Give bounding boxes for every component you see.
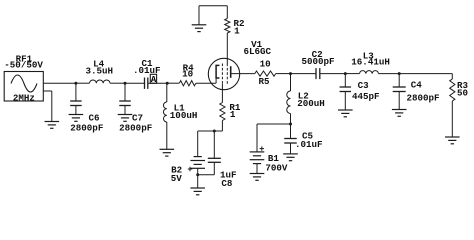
wire tube cathode down to R1 bbox=[221, 84, 223, 103]
ground below L1 bbox=[160, 149, 175, 156]
svg-text:6L6GC: 6L6GC bbox=[244, 46, 272, 57]
wire top rail to R2 bbox=[226, 6, 228, 19]
ground below C3 bbox=[338, 110, 353, 117]
C1 marker box bbox=[150, 74, 156, 83]
capacitor C3 bottom lead bbox=[344, 92, 346, 111]
tube V1 grid 1 dashed bbox=[221, 64, 223, 85]
capacitor C5 bottom lead bbox=[290, 143, 292, 154]
RF source RF1 box bbox=[4, 72, 43, 102]
wire node B to C1 bbox=[125, 82, 145, 84]
wire node H to R3 corner bbox=[399, 73, 452, 75]
ground below C4 bbox=[392, 110, 407, 117]
ground below B2 bbox=[190, 188, 205, 195]
wire R1 bottom bbox=[221, 121, 223, 132]
ground below RF1 bbox=[45, 122, 60, 129]
capacitor C3 top lead bbox=[344, 74, 346, 87]
wire L4 to node B bbox=[110, 82, 125, 84]
capacitor C5 top lead bbox=[290, 124, 292, 139]
wire R2 to tube screen grid bbox=[226, 33, 228, 64]
capacitor C2 bbox=[316, 68, 320, 79]
svg-text:10: 10 bbox=[260, 58, 271, 69]
wire node C to R4 bbox=[167, 82, 179, 84]
capacitor C4 bottom lead bbox=[398, 92, 400, 110]
tube V1 plate bar bbox=[230, 66, 232, 78]
node at C8 top tap bbox=[213, 130, 216, 133]
wire top rail bbox=[199, 5, 227, 7]
wire R3 top lead bbox=[451, 74, 453, 79]
svg-text:1: 1 bbox=[234, 26, 240, 37]
capacitor C3 bbox=[340, 87, 352, 92]
svg-text:.01uF: .01uF bbox=[133, 65, 161, 76]
tube V1 grid 2 dashed bbox=[226, 64, 228, 85]
svg-text:C4: C4 bbox=[411, 80, 423, 91]
wire R5 to node D bbox=[276, 73, 291, 75]
wire RF1 minus pin bbox=[43, 90, 52, 92]
ground below C6 bbox=[69, 115, 84, 122]
capacitor C7 bbox=[119, 101, 131, 106]
svg-text:-50/50V: -50/50V bbox=[4, 60, 43, 71]
svg-text:5V: 5V bbox=[171, 173, 183, 184]
svg-text:3.5uH: 3.5uH bbox=[86, 66, 114, 77]
node B junction bbox=[124, 82, 127, 85]
capacitor C8 bbox=[208, 158, 221, 162]
capacitor C6 bbox=[70, 101, 82, 106]
svg-text:R5: R5 bbox=[258, 76, 270, 87]
wire B1 top lead bbox=[256, 124, 258, 152]
node F junction bbox=[289, 123, 292, 126]
wire C1 to node C bbox=[148, 82, 167, 84]
capacitor C4 top lead bbox=[398, 74, 400, 87]
capacitor C6 bottom lead bbox=[75, 106, 77, 115]
wire B1 bottom lead bbox=[256, 164, 258, 174]
svg-text:5000pF: 5000pF bbox=[301, 56, 334, 67]
wire node F to B1 bbox=[257, 123, 291, 125]
inductor L1 bbox=[163, 102, 166, 122]
inductor L2 bbox=[287, 91, 291, 114]
svg-text:C8: C8 bbox=[221, 178, 233, 189]
battery B1 bbox=[250, 152, 265, 164]
resistor R2 bbox=[225, 19, 230, 34]
ground top left bbox=[192, 25, 207, 32]
svg-text:100uH: 100uH bbox=[170, 110, 198, 121]
battery B2 bbox=[190, 157, 205, 169]
resistor R1 bbox=[220, 103, 225, 121]
wire R4 to tube grid bbox=[196, 82, 216, 84]
wire RF1 plus pin to node A bbox=[43, 82, 76, 84]
wire node E to L3 bbox=[345, 73, 359, 75]
capacitor C8 bottom lead bbox=[213, 162, 215, 175]
inductor L2 top lead bbox=[290, 74, 292, 91]
resistor R3 bbox=[450, 79, 455, 101]
inductor L1 bottom lead bbox=[166, 122, 168, 149]
inductor L1 top lead bbox=[166, 83, 168, 102]
ground below C5 bbox=[283, 154, 298, 161]
wire tube plate to R5 bbox=[231, 73, 255, 75]
wire R3 bottom lead bbox=[451, 101, 453, 137]
capacitor C7 top lead bbox=[124, 83, 126, 101]
node A junction bbox=[74, 82, 77, 85]
ground below C7 bbox=[118, 115, 133, 122]
svg-text:700V: 700V bbox=[265, 163, 288, 174]
svg-text:2MHz: 2MHz bbox=[13, 92, 35, 103]
wire B2 bottom lead bbox=[197, 168, 199, 188]
inductor L3 bbox=[360, 71, 379, 74]
svg-text:2800pF: 2800pF bbox=[406, 92, 439, 103]
node D junction bbox=[289, 72, 292, 75]
node E junction bbox=[344, 72, 347, 75]
wire node D to C2 bbox=[291, 73, 317, 75]
node C junction bbox=[166, 82, 169, 85]
svg-text:C3: C3 bbox=[358, 80, 370, 91]
wire top ground lead bbox=[198, 6, 200, 25]
ground below R3 bbox=[445, 137, 460, 144]
svg-text:10: 10 bbox=[182, 68, 193, 79]
capacitor C1 bbox=[145, 78, 148, 89]
wire R1 bottom horizontal to B2 bbox=[198, 130, 223, 132]
capacitor C7 bottom lead bbox=[124, 106, 126, 115]
svg-text:50: 50 bbox=[457, 87, 468, 98]
node H junction bbox=[398, 72, 401, 75]
ground below B1 bbox=[250, 174, 265, 181]
wire C2 to node E bbox=[320, 73, 346, 75]
node below B2 bbox=[196, 173, 199, 176]
svg-text:.01uF: .01uF bbox=[295, 139, 323, 150]
capacitor C8 top lead bbox=[213, 131, 215, 158]
capacitor C5 bbox=[284, 139, 297, 144]
capacitor C4 bbox=[393, 87, 406, 92]
svg-text:16.41uH: 16.41uH bbox=[351, 57, 390, 68]
wire node A to L4 bbox=[76, 82, 90, 84]
resistor R5 bbox=[255, 71, 276, 76]
wire C8 bottom to B2 node bbox=[198, 174, 215, 176]
svg-text:2800pF: 2800pF bbox=[119, 122, 152, 133]
svg-text:1: 1 bbox=[230, 109, 236, 120]
svg-text:200uH: 200uH bbox=[297, 98, 325, 109]
wire L3 to node H bbox=[379, 73, 400, 75]
resistor R4 bbox=[179, 81, 196, 86]
svg-text:445pF: 445pF bbox=[352, 91, 380, 102]
inductor L2 bottom lead bbox=[290, 114, 292, 125]
wire grid wire riser to cathode bbox=[215, 78, 217, 83]
svg-text:2800pF: 2800pF bbox=[70, 122, 103, 133]
RF1 sine wave symbol bbox=[11, 75, 37, 92]
wire B2 top lead bbox=[197, 131, 199, 157]
capacitor C6 top lead bbox=[75, 83, 77, 101]
tube V1 envelope circle bbox=[208, 58, 239, 89]
tube V1 cathode bracket bbox=[216, 65, 219, 78]
inductor L4 bbox=[90, 80, 110, 83]
